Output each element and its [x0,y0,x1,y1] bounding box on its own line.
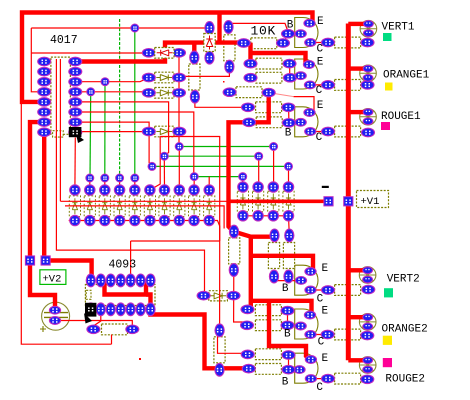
green wire vertical to diode column 4 [119,19,121,178]
resistor R10 pads [269,229,279,283]
wire R2 right to R3 right [289,64,291,78]
green bus end pads [148,143,293,181]
svg-text:ORANGE1: ORANGE1 [383,70,430,82]
wire Q6 collector to resistor [311,378,328,380]
green wire bus g1 [179,146,273,148]
wire vertical net x=179 diode cathodes to g1 and column 8 [178,53,180,190]
diode bank2 top pads [238,182,294,192]
thick trace 4017 row1 to 10K [75,43,243,62]
svg-text:B: B [285,128,292,140]
resistor R14 pads [241,350,295,359]
LED ORANGE1 symbol [360,65,377,82]
ratsnest diagonal R4 to Q3 [269,93,294,97]
resistor R11 vertical VERT2 b [283,243,294,269]
wire left border thin [21,103,111,344]
resistor R9 vertical [229,238,240,264]
resistor R12 ORANGE2 upper body [255,305,281,316]
IC U2 selected pad pin7 [84,303,96,324]
diode D4 horizontal [155,126,174,137]
svg-text:B: B [282,377,289,389]
diode D3 horizontal [155,88,174,99]
wire vertical x56 under 4017 to diode D15 anode [56,59,204,296]
colour swatch ORANGE1 yellow [385,83,393,91]
diode D2 horizontal [155,72,174,83]
resistor RL5 pads [321,330,374,340]
wire green g4 end down to diode column 11 [242,177,244,187]
node +V2 square pad A [25,256,34,265]
resistor RL3 pads [322,127,375,137]
wire R5 right to R6 right [288,107,290,122]
thick trace drop to pad x194 [192,43,196,58]
diode bank2 bottom pads [238,211,294,221]
resistor 10K pads [237,39,289,48]
wire R3 right to Q2 base [290,76,301,78]
LED ORANGE1 pads [363,65,373,81]
resistor R13 pads [241,321,295,330]
diode D1 selected horizontal [155,48,174,59]
thick trace trunk stub VERT2 [348,268,363,272]
svg-text:E: E [322,263,329,275]
IC U1 pads left column [38,57,51,136]
thick trace trunk stub ORANGE2 [348,315,363,319]
wire R16 top pad to ROUGE2 resistor [218,330,248,354]
svg-text:C: C [316,382,323,394]
thick trace 4093 internal [105,280,147,294]
wire pad x228 top to Q1 base feed [229,23,289,31]
wire capacitor minus to R17 right pad [55,321,132,330]
transistor Q2 pads [295,61,316,89]
resistor R6 body [256,117,282,128]
resistor RL3 body [335,126,361,137]
resistor R14 ROUGE2 upper body [255,349,281,360]
thick trace to Q6 emitter ROUGE2 [269,301,310,360]
wire green g3 end down to diode column 14 [288,166,290,187]
green wire bus g4 [194,176,243,178]
svg-text:E: E [317,57,324,69]
svg-text:+V2: +V2 [43,274,62,286]
label minus [322,186,329,188]
thick trace 4017 row8 to +V2 pad B [42,132,46,260]
thick trace to ORANGE2 R left pad [248,301,251,309]
wire 4017 pin row6 to green g4 [75,112,194,177]
svg-text:4017: 4017 [50,34,78,47]
thick trace trunk stub ORANGE1 [348,66,363,70]
transistor Q1 body [295,18,318,48]
thick trace drop to R2 left and Q2 emitter [251,43,309,65]
resistor R3 pads [244,73,297,82]
svg-text:ROUGE2: ROUGE2 [385,374,425,386]
wire 4017 pin row5 to green g2 [75,102,168,156]
node +V1 square pad on trunk [344,197,353,206]
wire ORANGE2 resistor rights to Q5 base [288,311,298,326]
diode D4 pads [142,127,186,136]
resistor R6 pads [243,118,296,127]
transistor Q4 body [295,265,318,295]
node +V2 square pad B [41,256,50,265]
diode D1 pads [142,49,185,58]
resistor R5 body [256,102,282,113]
svg-text:E: E [322,306,329,318]
resistor R7 vertical [189,64,200,90]
LED ROUGE2 symbol [359,357,376,374]
green wire vertical to diode column 5 [134,28,136,178]
resistor RL2 pads [322,81,375,90]
transistor Q4 pads [295,268,316,294]
green wire bus g2 [164,155,258,157]
svg-text:+V1: +V1 [361,196,380,208]
resistor RL5 body [335,329,361,340]
IC U2 pads top row [86,274,155,287]
wire 4093 bottom pads 6-7 [141,308,151,310]
thick trace R6 left to diode bank2 row [229,122,250,231]
svg-text:C: C [318,337,325,349]
resistor RL6 pads [322,374,374,383]
transistor Q6 body [295,353,318,383]
resistor RL1 body [335,37,361,48]
resistor R8 vertical [224,35,235,61]
resistor R8 pads [224,21,234,73]
thick trace trunk stub ROUGE2 [348,358,363,362]
transistor Q1 pads [295,19,316,46]
LED VERT2 pads [363,267,373,283]
wire Q5 collector to resistor [311,334,328,336]
wire thin top rectangle net [31,28,209,92]
resistor R2 pads [244,59,296,68]
thick trace to Q5 emitter ORANGE2 [251,301,312,314]
resistor R7 pads [190,51,200,103]
wire red stubs via pads to diode tops columns 2-5 [90,178,135,190]
diode D20 pads [205,22,214,65]
colour swatch VERT2 green [384,288,393,297]
svg-text:B: B [282,283,289,295]
resistor R17 under 4093 body [102,324,128,335]
svg-text:C: C [316,85,323,97]
wire diode bank 2 bottom row [243,216,289,236]
thick trace top supply bus to Q1 emitter [22,13,313,102]
IC U2 4093 body [85,285,155,306]
wire vertical x60 under 4017 to bank row A [59,59,61,201]
svg-text:C: C [317,293,324,305]
wire to Q3 emitter [294,97,314,112]
resistor RL6 body [335,373,361,384]
thick trace branch top bus down [217,13,221,43]
thick trace trunk stub VERT1 [348,22,364,26]
resistor R4 pads [223,88,275,97]
resistor RL1 pads [322,38,375,47]
LED ROUGE2 pads [363,357,373,373]
svg-text:E: E [317,16,324,28]
thick trace trunk stub ROUGE1 [348,110,363,114]
wire 4093 pin to R17 left pad [93,309,100,329]
resistor R4 body [236,87,262,98]
resistor R12 pads [241,305,294,315]
LED ROUGE1 pads [363,109,373,125]
resistor R16 pads [215,324,224,376]
LED VERT2 symbol [359,267,376,284]
wire column9 drop from g4 [193,177,195,190]
svg-text:VERT1: VERT1 [382,22,415,34]
IC U1 4017 notch [53,131,64,137]
diode bank D5-D14 top pads [70,185,215,195]
wire 4017 pin row4 to diode D3 [75,92,148,93]
colour swatch VERT1 green [383,33,392,41]
thick trace LED supply trunk [346,24,351,361]
wire resistor R7 bottom to R5 left [195,97,248,108]
LED ORANGE2 pads [363,314,373,330]
thick trace 4017 row7 to +V2 pad A [30,122,44,260]
svg-text:ORANGE2: ORANGE2 [382,324,428,336]
wire Q3 collector to resistor [310,131,328,133]
diode D2 pads [142,73,185,82]
resistor R5 pads [242,103,295,112]
green wire vertical to diode column 3 [104,82,106,178]
LED ORANGE2 symbol [359,314,376,331]
wire diode bank row B [65,206,224,229]
diode D15 horizontal [209,291,228,301]
resistor R10 vertical VERT2 a [268,243,279,269]
resistor R9 pads [229,225,238,276]
junction dot artifact [139,358,141,360]
thick trace R4 right to R6 left [250,93,269,123]
resistor R2 body [256,58,282,69]
resistor R3 body [256,72,282,83]
svg-text:B: B [284,329,291,341]
node +V1 box [357,191,389,208]
LED VERT1 symbol [360,20,377,37]
resistor R17 pads [87,325,139,334]
node +V2 box [40,270,66,285]
green wire bus g3 [152,165,289,167]
wire 4017 pin row3 to diode D2 [75,78,147,82]
wire ROUGE2 resistor rights to Q6 base [289,355,296,370]
resistor 10K body [251,38,277,49]
IC U1 pads right column [69,57,82,136]
svg-text:B: B [287,20,294,32]
svg-text:VERT2: VERT2 [387,274,420,286]
resistor R15 pads [242,364,295,374]
svg-text:C: C [316,132,323,144]
IC U2 4093 notch [86,290,91,299]
via pads above diode columns 2-5 [86,174,139,182]
wire Q1 collector to resistor [310,42,328,44]
resistor RL4 pads [322,285,375,294]
diode bank D5-D14 bodies and symbols [69,196,214,217]
thick trace to Q4 emitter VERT2 [251,256,313,271]
capacitor C1 pads [49,306,60,324]
capacitor C1 electrolytic [40,302,70,332]
thick trace +V2 pad B to 4093 pin1 [46,261,92,281]
colour swatch ROUGE1 pink [381,122,390,130]
diode bank D5-D14 bottom pads [70,215,215,225]
wire 10K right pad to Q1 base [283,34,301,43]
green wire vertical to diode column 2 [89,92,92,178]
node minus square pad [324,197,333,206]
wire diode bank row A [60,200,228,202]
thick trace diode bank2 supply row [229,200,329,204]
colour swatch ROUGE2 pink [383,358,392,367]
wire Q2 collector to resistor [310,84,328,86]
wire column7 drop from g2 [163,156,165,190]
thick trace down to ORANGE2 junction [249,237,253,301]
IC U2 pads bottom row [86,303,155,316]
LED VERT1 pads [364,21,374,37]
wire R6 right to Q3 base [289,121,301,124]
wire R17 bottom stub [111,335,113,345]
svg-text:E: E [317,100,324,112]
IC U1 4017 body [51,57,71,134]
svg-text:10K: 10K [251,24,277,39]
LED ROUGE1 symbol [360,109,377,126]
wire green g2 end down to diode column 12 [258,156,260,187]
resistor RL2 body [335,80,361,91]
transistor Q2 body [295,59,318,89]
wire net y136 to column 6 and vertical x219 [153,137,220,331]
transistor Q3 pads [295,109,316,136]
wire diode bank bottom row [69,221,220,242]
transistor Q5 pads [295,311,316,338]
diode D15 pads [197,291,240,300]
colour swatch ORANGE2 yellow [383,336,392,345]
thick trace +V2 pad A to capacitor plus [30,261,55,311]
diode bank2 D16-D19 bodies [237,191,294,212]
resistor R13 ORANGE2 lower body [255,320,281,331]
thick trace pad to VERT2 resistor tops [234,232,274,237]
via pads on wire row3 row4 [87,78,109,96]
wire 4017 pin row8 to diode D4 [75,131,149,133]
svg-text:4093: 4093 [109,259,137,272]
resistor R11 pads [284,229,294,283]
transistor Q5 body [295,309,318,339]
wire VERT2 resistor bottoms to Q4 base [274,277,298,281]
wire resistor R8 bottom to diode D2 cathode [181,67,229,77]
wire drop to diode column 1 [74,138,76,191]
svg-text:E: E [322,353,329,365]
via pad on top net x134 [131,24,139,32]
wire 4017 pin row7 to green g3 [75,122,152,166]
svg-text:ROUGE1: ROUGE1 [381,111,421,123]
resistor RL4 body [335,285,361,296]
pad Q1 base feed [282,29,295,38]
diode D20 vertical selected [204,34,215,52]
wire green g1 end down to diode column 13 [273,147,275,188]
thick trace 4093 out to ROUGE2 resistor [146,295,249,369]
diode D3 pads [142,89,185,98]
transistor Q3 body [295,107,318,137]
wire y241 horizontal to 4093 pin [131,241,220,280]
transistor Q6 pads [294,356,317,383]
svg-text:C: C [317,43,324,55]
IC U1 selected pad pin9 [69,127,84,143]
wire 4093 top pads 3-4 [111,279,121,281]
wire Q4 collector to resistor [311,289,329,291]
resistor R15 ROUGE2 lower body [255,364,281,375]
wire column10 drop [208,177,210,190]
resistor R16 vertical [214,337,225,363]
wire D15 cathode down to R14 left pad [234,270,247,325]
junction dot artifact 2 [223,81,225,83]
